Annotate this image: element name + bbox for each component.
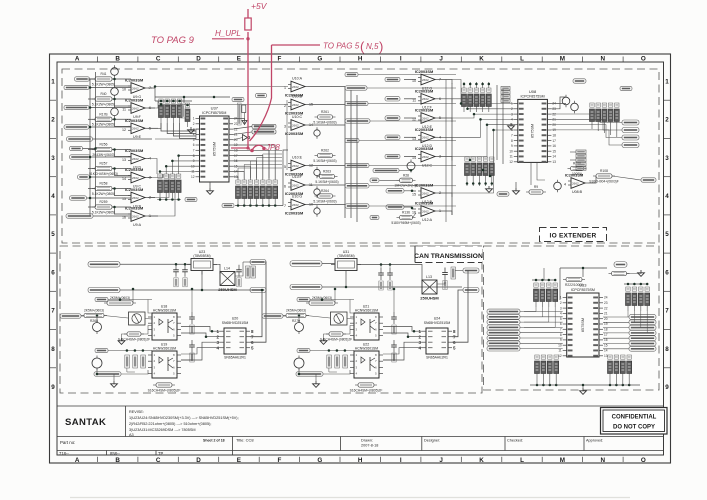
net label SN_RE_IO	[94, 372, 121, 376]
wire U37 pin 8	[233, 161, 257, 180]
op-amp U12:E	[412, 108, 441, 129]
svg-text:10: 10	[122, 88, 126, 92]
resistor bank RN3	[236, 180, 278, 204]
wire can vertical links	[334, 289, 336, 303]
resistor R222	[563, 277, 585, 287]
wire rn2 bottom	[157, 199, 181, 201]
svg-text:15: 15	[604, 343, 608, 347]
wire can misc	[108, 299, 152, 301]
net label GB low	[297, 348, 310, 352]
svg-text:858--: 858--	[110, 451, 120, 456]
svg-text:2662: 2662	[132, 127, 139, 131]
net label Pin right	[629, 331, 656, 336]
svg-text:A: A	[75, 56, 80, 63]
net label Pin left	[487, 320, 520, 325]
svg-text:2662: 2662	[292, 183, 299, 187]
resistor bank RN-TL	[534, 283, 558, 307]
wire U37 pin 10	[233, 172, 244, 181]
wire B2 to U37	[160, 172, 196, 175]
wire ind out	[235, 262, 243, 276]
ground near dip	[188, 127, 195, 133]
wire trans out	[250, 290, 262, 337]
net label CANL	[250, 288, 266, 293]
net label GB B3	[222, 203, 234, 207]
svg-text:SANTAK: SANTAK	[65, 417, 106, 428]
svg-text:B: B	[115, 457, 120, 464]
svg-text:15: 15	[552, 149, 556, 153]
scan artifact streak	[70, 497, 630, 499]
svg-text:2662: 2662	[132, 86, 139, 90]
svg-text:K: K	[479, 457, 484, 464]
svg-text:7: 7	[284, 204, 286, 208]
svg-text:HCNW2601SM: HCNW2601SM	[153, 347, 176, 351]
wire u33 right bank verticals	[627, 311, 629, 317]
resistor 2K3SM row1	[104, 296, 136, 305]
node dots K mesh	[469, 159, 472, 162]
wire opto-trans	[181, 327, 220, 332]
inductor L14	[218, 267, 237, 293]
op-amp U33 IC PCF8575	[558, 283, 608, 359]
net label GB u37	[232, 97, 244, 101]
capacitor C38	[387, 268, 393, 290]
op-amp U12:C	[412, 146, 441, 167]
svg-text:ICPCF8575SM: ICPCF8575SM	[521, 94, 545, 98]
op-amp U10:A	[284, 76, 308, 97]
wire XSOPEDN	[369, 205, 456, 207]
resistor R17B	[92, 113, 115, 127]
svg-text:19FCW+2F(H)2: 19FCW+2F(H)2	[394, 184, 418, 188]
net label BD	[78, 175, 90, 179]
wire U12:E input	[404, 117, 416, 119]
transistor F10	[295, 320, 304, 334]
svg-text:4: 4	[193, 133, 195, 137]
svg-text:U12:C: U12:C	[422, 163, 433, 167]
svg-text:18: 18	[552, 134, 556, 138]
svg-text:2: 2	[193, 122, 195, 126]
wire RN-R top	[624, 283, 648, 285]
svg-text:U10:F: U10:F	[292, 175, 303, 179]
svg-text:718--: 718--	[59, 451, 69, 456]
row numbers	[51, 78, 669, 391]
op-amp U12:F	[412, 88, 441, 109]
wire rs_intech	[399, 170, 411, 172]
net label SCL row	[252, 130, 276, 134]
svg-text:18: 18	[604, 328, 608, 332]
svg-text:11: 11	[509, 155, 513, 159]
CAN TRANSMISSION label notch	[414, 246, 483, 263]
net label WALT	[641, 178, 656, 182]
red H_UPL label	[212, 29, 250, 41]
resistor bank RN1	[159, 99, 183, 123]
svg-text:U10:E: U10:E	[292, 155, 303, 159]
svg-text:250UHSM: 250UHSM	[420, 296, 439, 301]
svg-text:IC2003SM: IC2003SM	[415, 127, 433, 132]
wire remote	[570, 151, 576, 153]
wire ind out	[437, 280, 445, 285]
svg-text:3: 3	[560, 306, 562, 310]
net label GB 12	[370, 178, 379, 182]
wire q	[81, 315, 84, 317]
column letters	[75, 56, 646, 464]
wire U12:C input	[404, 156, 416, 158]
svg-text:O: O	[641, 457, 646, 464]
wire bank B5 bottom	[466, 181, 468, 186]
svg-text:E: E	[237, 457, 241, 464]
svg-text:6: 6	[284, 185, 286, 189]
svg-text:U9:A: U9:A	[133, 223, 142, 227]
svg-text:2662: 2662	[422, 155, 429, 159]
op-amp U9:C	[122, 167, 151, 188]
resistor 2K3SM row1	[306, 296, 338, 305]
wire pill to U33	[520, 348, 563, 350]
varistor D30	[571, 101, 579, 114]
capacitor C37b	[442, 268, 448, 290]
wire U08 to pills	[551, 114, 622, 123]
wire bank B6 bottoms	[591, 127, 593, 129]
transceiver U20	[217, 317, 255, 360]
wire bank B4 top	[463, 82, 465, 88]
svg-text:C: C	[156, 56, 161, 63]
svg-text:15: 15	[412, 193, 416, 197]
svg-text:D: D	[196, 56, 201, 63]
wire bank B3 bottom	[235, 205, 283, 207]
wire INV	[359, 140, 456, 142]
svg-text:2662: 2662	[292, 123, 299, 127]
net label CANH	[250, 260, 266, 265]
svg-text:U10:G: U10:G	[292, 194, 303, 198]
net label GB right	[573, 79, 586, 83]
net label CANH2	[463, 268, 479, 273]
svg-text:TO PAG 9: TO PAG 9	[151, 35, 195, 46]
svg-text:11: 11	[558, 349, 562, 353]
wire reg gnd	[345, 275, 347, 288]
wire bus U12 to U08	[452, 80, 514, 104]
optocoupler U19	[148, 343, 181, 379]
op-amp U12:A	[412, 201, 441, 222]
net label Pin left	[487, 309, 520, 314]
svg-text:R40: R40	[100, 92, 106, 96]
wire reg gnd	[201, 271, 203, 291]
net label L_DIN1	[385, 77, 400, 81]
svg-text:2007-8-18: 2007-8-18	[361, 444, 378, 448]
net label S_BUS_AB	[67, 137, 93, 141]
resistor R-u33top	[609, 271, 630, 275]
svg-text:IC2003SM: IC2003SM	[415, 146, 433, 151]
svg-text:3: 3	[51, 155, 55, 162]
svg-text:U10:A: U10:A	[292, 76, 303, 80]
svg-text:A: A	[75, 457, 80, 464]
varistor above U9:F	[111, 85, 119, 98]
wire U33 to pill	[603, 332, 629, 334]
wire LOAD_RELAY	[370, 120, 456, 122]
svg-text:5.1K2W+(0805): 5.1K2W+(0805)	[92, 210, 115, 214]
ground u33 top	[638, 270, 645, 276]
resistor R34	[118, 332, 150, 342]
svg-text:2662: 2662	[132, 196, 139, 200]
transistor circle	[314, 186, 320, 197]
capacitor C42	[189, 340, 195, 362]
svg-text:23: 23	[604, 301, 608, 305]
svg-text:G: G	[317, 457, 322, 464]
svg-text:+5V: +5V	[251, 1, 268, 11]
wire bank B1 drops	[161, 123, 196, 131]
resistor R257	[89, 162, 118, 176]
red TO PAG 5 (N,5)	[272, 39, 384, 54]
svg-text:14: 14	[552, 155, 556, 159]
svg-text:U08: U08	[529, 89, 537, 94]
svg-text:2662: 2662	[422, 97, 429, 101]
net label SNB_POWER_GND	[290, 284, 322, 290]
svg-text:2662: 2662	[422, 191, 429, 195]
wire input row U9:A	[88, 206, 95, 208]
svg-text:12: 12	[191, 175, 195, 179]
svg-text:5: 5	[560, 317, 562, 321]
svg-text:12: 12	[558, 354, 562, 358]
net label MODIG	[70, 196, 87, 200]
svg-text:13: 13	[122, 158, 126, 162]
svg-text:7: 7	[511, 134, 513, 138]
svg-text:7: 7	[665, 308, 669, 315]
svg-text:10: 10	[558, 343, 562, 347]
svg-text:4: 4	[564, 183, 566, 187]
op-amp U10:F	[284, 175, 313, 196]
svg-text:8: 8	[511, 139, 513, 143]
svg-text:ICPCF8575SM: ICPCF8575SM	[202, 111, 226, 115]
svg-text:IC2003SM: IC2003SM	[125, 118, 143, 123]
svg-text:9: 9	[51, 384, 55, 391]
svg-text:B: B	[115, 56, 120, 63]
svg-text:2662: 2662	[132, 157, 139, 161]
net label SN_RE_IO	[296, 372, 323, 376]
node dot U9:C	[113, 167, 116, 170]
op-amp U9:F	[122, 98, 151, 119]
net label L_DIN4	[385, 135, 400, 139]
wire left bus verticals	[89, 79, 91, 216]
svg-text:2662: 2662	[422, 136, 429, 140]
net label LIN	[75, 77, 90, 81]
wire input row U9:G	[88, 78, 95, 80]
net label INV_RELAY	[386, 189, 404, 193]
wire u33 left bank verticals	[524, 307, 536, 312]
svg-text:2: 2	[560, 301, 562, 305]
wire U10 outputs	[308, 86, 345, 88]
wire U37 below	[209, 182, 211, 188]
svg-text:HCNW2601SM: HCNW2601SM	[355, 347, 378, 351]
wire XSOPEDU	[369, 165, 456, 167]
confidential do-not-copy box	[601, 408, 668, 435]
CAN region dashed box	[60, 246, 482, 393]
net label Pin right	[629, 315, 656, 320]
resistor RN1b label	[181, 104, 186, 118]
svg-text:2662: 2662	[422, 209, 429, 213]
net label INV	[345, 138, 359, 142]
svg-text:IC2003SM: IC2003SM	[125, 78, 143, 83]
varistor U12C	[407, 160, 415, 173]
svg-text:22: 22	[552, 112, 556, 116]
svg-text:5.1K2W+(0805): 5.1K2W+(0805)	[92, 192, 115, 196]
title block text	[59, 410, 603, 456]
svg-text:ICPCF8575SM: ICPCF8575SM	[571, 288, 595, 292]
net label BATTERY_SPD	[66, 214, 93, 218]
net label L_DIN3	[385, 116, 400, 120]
op-amp U08:B	[564, 173, 588, 194]
svg-text:2662: 2662	[292, 203, 299, 207]
svg-text:H: H	[358, 56, 363, 63]
svg-text:22: 22	[604, 306, 608, 310]
svg-text:5: 5	[284, 165, 286, 169]
svg-text:Designer:: Designer:	[424, 439, 440, 443]
svg-text:SN65HVD251SM: SN65HVD251SM	[424, 321, 451, 325]
transistor circle	[314, 127, 320, 138]
net label Pin left	[487, 346, 520, 351]
svg-text:IC2003SM: IC2003SM	[415, 108, 433, 113]
red wire down F	[231, 32, 272, 151]
net label Pin right	[629, 336, 656, 341]
node dot U9:F	[113, 98, 116, 101]
resistor R264	[313, 189, 336, 203]
node dot U9:G	[113, 78, 116, 81]
svg-text:L: L	[520, 457, 524, 464]
svg-text:8575SM: 8575SM	[581, 318, 585, 332]
node dot U9:B	[113, 187, 116, 190]
capacitor C42	[391, 340, 397, 362]
resistor bank RN2	[158, 174, 182, 198]
svg-text:I: I	[400, 56, 402, 63]
wire opto-trans	[383, 327, 422, 332]
svg-text:2662: 2662	[132, 106, 139, 110]
wire pill to U33	[520, 342, 563, 344]
wire B3 to U10	[238, 168, 282, 178]
wire bus IJ	[451, 83, 453, 215]
net label XSVPENE	[64, 105, 89, 109]
resistor R258	[92, 182, 115, 196]
svg-text:TP: TP	[158, 451, 164, 456]
net label GB low	[95, 348, 108, 352]
svg-text:(: (	[360, 39, 365, 54]
net label LIN2	[370, 215, 379, 219]
IO extender region dashed box	[484, 246, 660, 390]
ground below U37	[207, 188, 214, 194]
svg-text:5.1KSM+(0603): 5.1KSM+(0603)	[315, 180, 338, 184]
svg-text:20: 20	[234, 138, 238, 142]
svg-text:14: 14	[122, 177, 126, 181]
wire pill to U33	[520, 311, 563, 313]
ground B5	[486, 186, 493, 192]
svg-text:R108: R108	[600, 169, 608, 173]
svg-text:J: J	[439, 56, 443, 63]
capacitor C32	[378, 268, 384, 290]
wire low branch	[108, 350, 152, 352]
svg-text:2: 2	[665, 117, 669, 124]
svg-text:M: M	[560, 56, 565, 63]
sheet outer border	[50, 54, 671, 463]
wire top horizontals	[148, 88, 155, 101]
svg-text:2: 2	[51, 117, 55, 124]
net label L_DIN5	[385, 154, 400, 158]
svg-text:6: 6	[560, 322, 562, 326]
net label LOAD_RELAY	[345, 119, 370, 123]
resistor R34	[320, 332, 352, 342]
svg-text:O: O	[641, 56, 646, 63]
resistor R262	[313, 149, 336, 163]
svg-text:L: L	[520, 56, 524, 63]
svg-text:N: N	[601, 457, 606, 464]
svg-text:L13: L13	[426, 275, 432, 279]
wire can misc	[310, 299, 354, 301]
svg-text:6: 6	[51, 269, 55, 276]
svg-text:IC2003SM: IC2003SM	[565, 173, 583, 178]
resistor bank RN6	[590, 103, 620, 127]
wire U12 outputs	[438, 80, 452, 84]
ground low	[313, 381, 320, 387]
sheet inner border	[57, 62, 664, 455]
svg-text:5.1K2W+(0805): 5.1K2W+(0805)	[92, 82, 115, 86]
svg-text:IC2003SM: IC2003SM	[285, 211, 303, 216]
svg-text:REVISE:: REVISE:	[129, 410, 144, 414]
svg-text:R256: R256	[100, 143, 108, 147]
wire GB	[358, 74, 456, 76]
resistor R256	[92, 143, 115, 157]
svg-text:R257: R257	[100, 162, 108, 166]
svg-text:13: 13	[604, 354, 608, 358]
svg-text:I: I	[400, 457, 402, 464]
svg-text:H: H	[358, 457, 363, 464]
net label SNR_POWER_GND	[88, 287, 120, 293]
svg-text:8: 8	[560, 333, 562, 337]
svg-text:9: 9	[560, 338, 562, 342]
svg-text:13: 13	[552, 160, 556, 164]
svg-text:IC2003SM: IC2003SM	[125, 148, 143, 153]
svg-text:R258: R258	[100, 182, 108, 186]
transistor T10	[92, 356, 102, 371]
svg-text:5.1KSM+(0603): 5.1KSM+(0603)	[313, 120, 336, 124]
op-amp U12:B	[412, 183, 441, 204]
svg-text:R9: R9	[534, 185, 538, 189]
optocoupler U21	[350, 305, 383, 341]
wire U08B out	[588, 176, 596, 183]
node dot U9:D	[113, 148, 116, 151]
svg-text:F: F	[277, 457, 281, 464]
wire input row U9:D	[88, 149, 95, 151]
svg-text:11: 11	[122, 108, 126, 112]
node dot U9:E	[113, 118, 116, 121]
net label GB top	[95, 297, 108, 301]
op-amp U10:C	[284, 115, 313, 136]
svg-text:L14: L14	[224, 267, 230, 271]
svg-text:JP8: JP8	[265, 143, 280, 152]
capacitor cluster	[125, 355, 146, 368]
svg-text:5.1K2W+(0805): 5.1K2W+(0805)	[92, 102, 115, 106]
svg-text:10: 10	[509, 149, 513, 153]
svg-text:SN65HVD251SM: SN65HVD251SM	[222, 321, 249, 325]
op-amp U37 IC PCF8575	[191, 106, 238, 183]
svg-text:7: 7	[51, 308, 55, 315]
svg-text:HCNW2601SM: HCNW2601SM	[153, 309, 176, 313]
wire U37 pin 6	[233, 150, 269, 180]
svg-text:8: 8	[51, 346, 55, 353]
svg-text:2662: 2662	[132, 176, 139, 180]
inductor L13	[420, 275, 439, 301]
net label XSOPEDC	[64, 125, 89, 129]
transistor pack	[129, 312, 146, 325]
svg-text:2K5M+(0603): 2K5M+(0603)	[84, 309, 104, 313]
wire mid horizontals	[148, 159, 157, 175]
svg-text:7: 7	[193, 149, 195, 153]
wire U12:G input	[404, 79, 416, 81]
net label Pin left	[487, 314, 520, 319]
wire pill to U33	[520, 337, 563, 339]
net label Pin left	[487, 336, 520, 341]
